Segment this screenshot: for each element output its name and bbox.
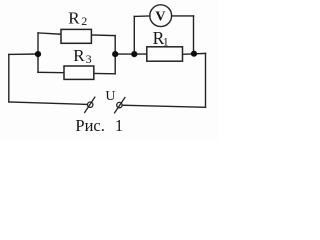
wire: R3 right lead xyxy=(94,72,115,74)
voltmeter V (meter body) xyxy=(150,5,172,27)
svg-text:1: 1 xyxy=(115,116,123,135)
terminal T2 (right supply terminal) xyxy=(117,102,122,107)
resistor R1 xyxy=(147,47,183,61)
node D junction dot (voltmeter right tap) xyxy=(191,51,197,57)
wire: voltmeter left horizontal xyxy=(134,15,149,17)
wire: voltmeter right vertical xyxy=(193,16,195,54)
wire: R3 left lead xyxy=(38,71,64,73)
wire: left rail xyxy=(8,54,10,102)
wire: R2 right lead xyxy=(91,34,115,37)
resistor R3 xyxy=(64,66,94,79)
wire: left rail to junction A xyxy=(9,53,38,55)
wire: bottom left segment xyxy=(9,102,88,105)
wire: node B to R1 left xyxy=(115,53,147,55)
wire: node B vertical (R2/R3 join) xyxy=(114,36,116,74)
wire: R2 left lead xyxy=(38,33,61,34)
svg-text:Рис.: Рис. xyxy=(75,116,104,135)
terminal T1 slash xyxy=(84,97,95,113)
wire: bottom right segment xyxy=(122,105,205,107)
terminal T1 (left supply terminal) xyxy=(88,102,93,107)
resistor R2 xyxy=(61,29,91,43)
svg-text:1: 1 xyxy=(163,35,169,49)
svg-text:R: R xyxy=(68,8,80,27)
svg-text:R: R xyxy=(73,46,85,65)
terminal T2 slash xyxy=(114,97,125,113)
wire: junction A vertical (R2/R3 split) xyxy=(37,33,39,72)
node A junction dot xyxy=(35,51,41,57)
wire: R1 right to right rail xyxy=(183,52,206,55)
svg-text:3: 3 xyxy=(86,52,92,66)
node C junction dot (voltmeter left tap) xyxy=(131,51,137,57)
wire: voltmeter right horizontal xyxy=(172,15,194,17)
svg-text:U: U xyxy=(105,89,115,104)
wire: right rail xyxy=(205,53,207,107)
svg-text:V: V xyxy=(155,10,165,25)
svg-text:2: 2 xyxy=(81,14,87,28)
wire: voltmeter left vertical xyxy=(133,16,135,54)
node B junction dot xyxy=(112,51,118,57)
